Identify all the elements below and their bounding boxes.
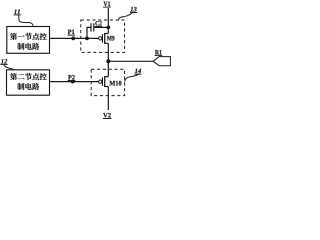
dashed box 13 (output module) — [81, 20, 125, 52]
transistor M9 drain stub — [105, 33, 109, 35]
block 12: second node control circuit box — [7, 70, 50, 95]
box 11 text line 2 制电路 — [17, 43, 24, 50]
node P1 junction dot — [71, 37, 75, 41]
transistor M10 gate bar — [101, 77, 103, 86]
terminal R1 pentagon — [153, 57, 170, 66]
wire C2 left plate to gate node — [87, 27, 91, 38]
transistor M10 drain stub — [105, 76, 109, 78]
transistor M9 gate bar — [101, 34, 103, 43]
label 13 — [130, 7, 132, 11]
transistor M10 gate bubble — [99, 80, 102, 83]
capacitor C2 left plate — [90, 23, 92, 31]
label R1 — [155, 50, 159, 54]
transistor M9 channel bar — [104, 33, 106, 44]
wire P2: box12 to M10 gate — [50, 81, 99, 83]
wire output to terminal R1 — [108, 60, 153, 62]
junction dot C2 branch on gate wire — [85, 37, 89, 41]
box 12 text line 1 第二节点控 — [10, 73, 17, 80]
leader line for 12 — [4, 65, 14, 70]
capacitor C2 right plate — [93, 23, 95, 31]
transistor M9 source stub — [105, 42, 109, 44]
box 11 text line 1 第一节点控 — [10, 33, 17, 40]
label 12 — [1, 59, 3, 63]
wire M10 source to V2 — [107, 87, 109, 111]
label 14 — [135, 69, 137, 73]
output junction dot — [106, 59, 110, 63]
block 11: first node control circuit box — [7, 27, 50, 54]
box 12 text line 2 制电路 — [17, 83, 24, 90]
node P2 junction dot — [71, 80, 75, 84]
wire P1: box11 to M9 gate — [50, 37, 99, 39]
label V2 — [103, 113, 108, 118]
label V1 — [103, 2, 107, 7]
transistor M9 gate bubble — [99, 37, 102, 40]
label M10 — [109, 81, 115, 86]
transistor M10 channel bar — [104, 76, 106, 87]
wire C2 right plate to drain line — [94, 26, 109, 28]
leader line for 14 — [125, 74, 139, 82]
leader line for 11 — [18, 15, 33, 26]
label P2 — [68, 75, 72, 79]
wire V1 to M9 drain — [107, 8, 109, 34]
wire M9 source to junction to M10 drain — [107, 43, 109, 76]
junction dot C2 to drain line — [106, 26, 110, 30]
label 11 — [14, 9, 16, 13]
leader line for 13 — [118, 12, 133, 20]
label C2 — [95, 21, 98, 25]
dashed box 14 (pull-down module) — [91, 69, 124, 95]
label P1 — [68, 30, 72, 34]
transistor M10 source stub — [105, 86, 109, 88]
label M9 — [107, 36, 112, 41]
